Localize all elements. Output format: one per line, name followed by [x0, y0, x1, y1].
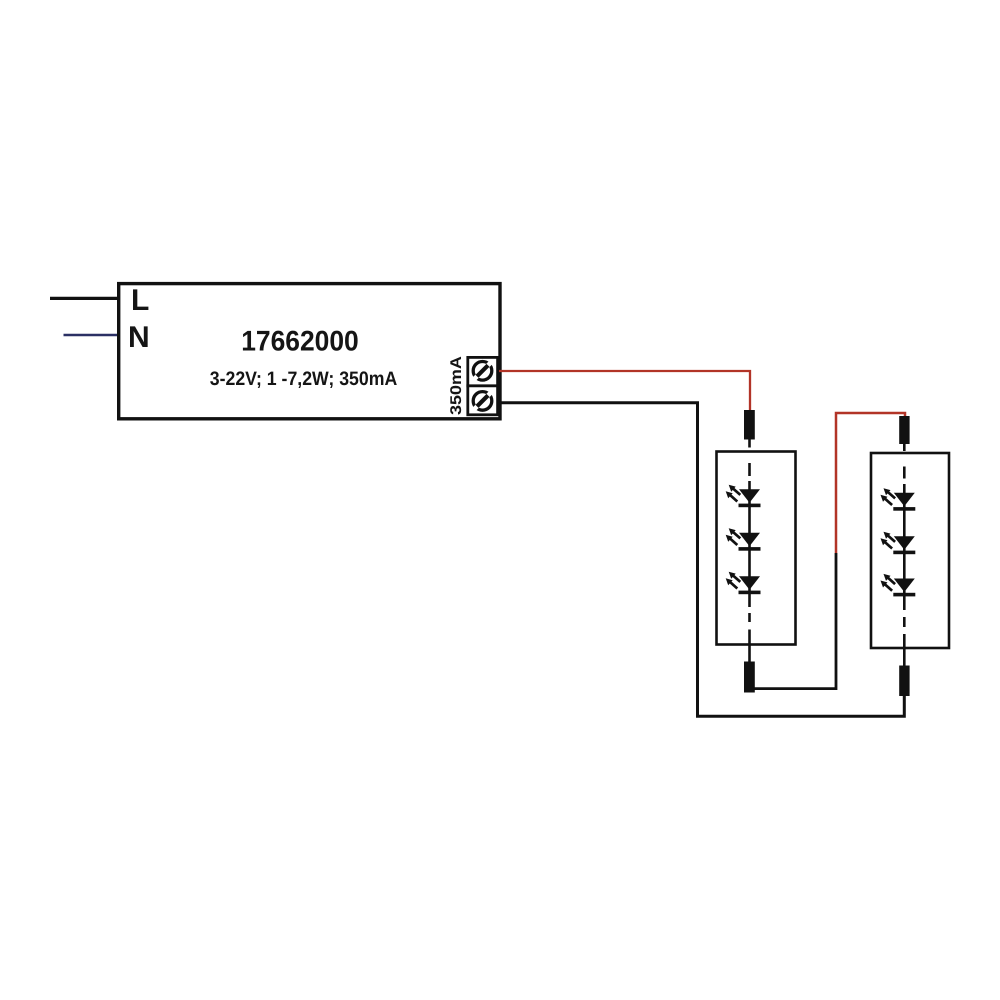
wire L input	[50, 297, 118, 300]
module 2 series line (dash)	[903, 467, 906, 479]
svg-text:17662000: 17662000	[241, 326, 359, 358]
terminal block outer	[468, 357, 498, 414]
terminal divider	[466, 384, 499, 387]
wire module1 bottom to jumper	[750, 553, 836, 689]
LED D5	[881, 532, 916, 555]
svg-text:L: L	[131, 284, 149, 317]
LED driver U1 box	[119, 284, 500, 419]
label 350mA (vertical)	[450, 357, 461, 415]
wire N input	[64, 334, 121, 337]
wire jumper red (to module 2)	[836, 413, 905, 553]
terminal screw + (top)	[473, 362, 492, 381]
module 1 series line (solid to bottom connector)	[748, 630, 751, 663]
module 1 series line (solid through LEDs)	[748, 481, 751, 607]
terminal screw - (bottom)	[473, 392, 492, 411]
svg-text:N: N	[128, 321, 150, 354]
LED D2	[726, 528, 761, 551]
wire red output (driver to module 1)	[499, 371, 750, 412]
wire black output (driver return)	[500, 403, 904, 716]
svg-text:3-22V; 1 -7,2W; 350mA: 3-22V; 1 -7,2W; 350mA	[210, 368, 398, 390]
module 1 connector bottom	[744, 662, 755, 693]
module 2 connector bottom	[899, 666, 909, 697]
module 1 series line (dash)	[748, 613, 751, 622]
module 2 series line (dash)	[903, 617, 906, 627]
module 1 series line (dash)	[748, 463, 751, 476]
module 1 series line (dash stub below connector)	[748, 440, 751, 448]
LED D6	[881, 574, 916, 597]
module 2 box	[871, 453, 949, 648]
module 2 connector top	[899, 416, 909, 444]
LED D3	[726, 572, 761, 595]
module 1 connector top	[744, 410, 755, 440]
module 2 series line (solid through LEDs)	[903, 484, 906, 610]
module 2 series line (solid to bottom connector)	[903, 634, 906, 666]
module 2 series line (dash stub below connector)	[903, 444, 906, 451]
module 1 box	[717, 452, 796, 645]
LED D4	[881, 488, 916, 511]
LED D1	[726, 485, 761, 508]
